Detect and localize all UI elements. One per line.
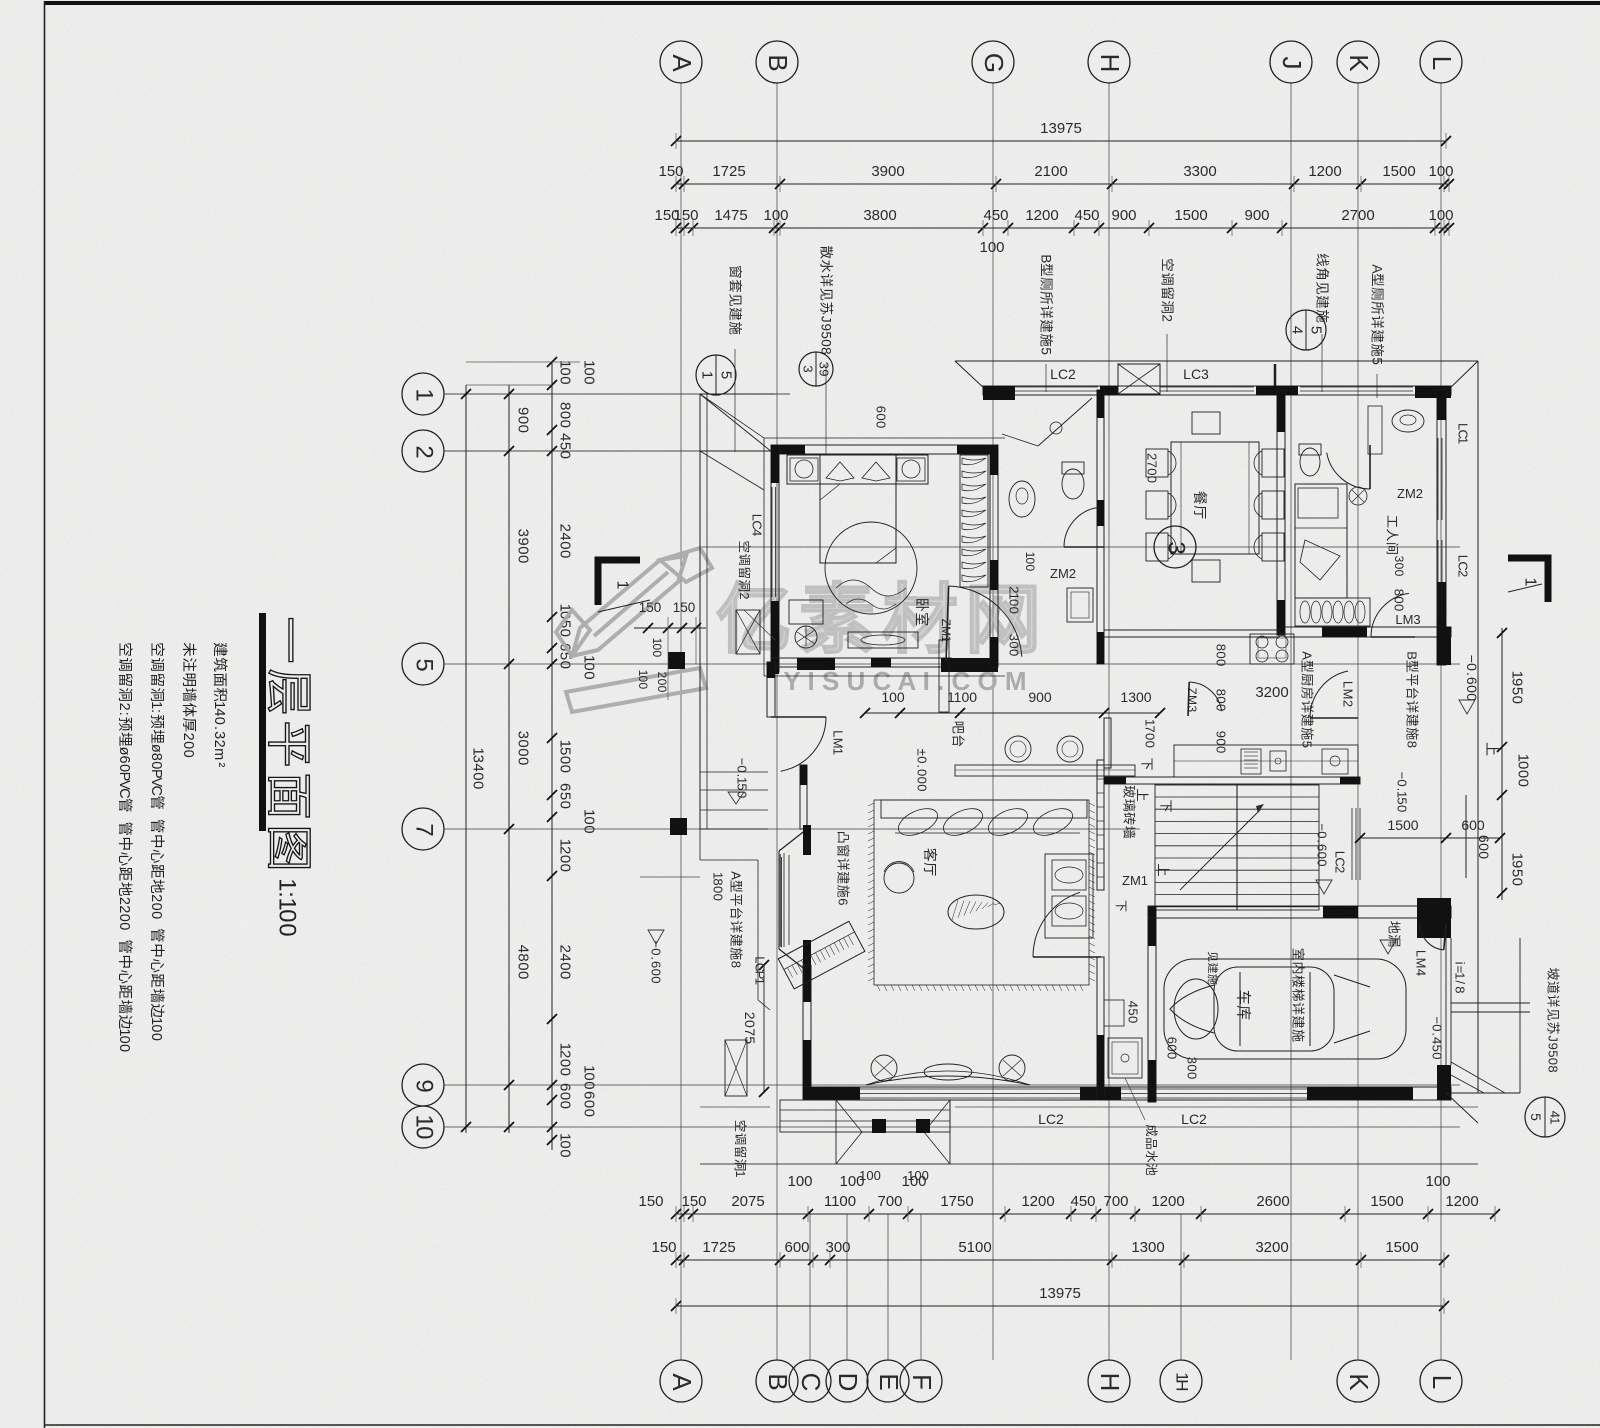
- svg-text:5: 5: [557, 442, 574, 450]
- svg-text:0: 0: [1007, 607, 1022, 614]
- detail circle 5/41 bottom right: [1525, 1097, 1565, 1137]
- title scale: [274, 878, 301, 936]
- svg-text:.: .: [649, 956, 664, 960]
- title underline bar: [259, 613, 266, 831]
- svg-text:0: 0: [515, 416, 532, 424]
- svg-text:窗: 窗: [836, 844, 851, 857]
- svg-text:0: 0: [1395, 805, 1410, 812]
- window LC3 top: [1160, 386, 1254, 388]
- dining chair top: [1192, 412, 1220, 434]
- detail circle 3/39: [799, 352, 833, 386]
- svg-text:详: 详: [819, 274, 834, 288]
- svg-text:室: 室: [1291, 948, 1306, 961]
- svg-text:0: 0: [1143, 733, 1158, 740]
- axis bubble 1H bottom: [1160, 1360, 1202, 1402]
- top dimension total 13975: [676, 140, 1446, 142]
- svg-text:道: 道: [1546, 981, 1561, 994]
- svg-text:明: 明: [180, 672, 196, 687]
- sofa long: [881, 800, 1087, 818]
- svg-text:详: 详: [1546, 994, 1561, 1007]
- svg-text:K: K: [1344, 54, 1374, 72]
- svg-text:建: 建: [1039, 319, 1054, 333]
- svg-text:4: 4: [1126, 1001, 1141, 1008]
- svg-text:0: 0: [557, 801, 574, 809]
- svg-text:0: 0: [711, 886, 726, 893]
- svg-text:0: 0: [1145, 476, 1160, 483]
- svg-text:套: 套: [728, 279, 743, 293]
- window LC2 top: [1015, 386, 1098, 388]
- axis bubble J top: [1270, 41, 1312, 83]
- svg-text:1200: 1200: [1445, 1193, 1478, 1210]
- svg-text:型: 型: [1039, 263, 1054, 277]
- svg-text:2: 2: [1160, 314, 1175, 322]
- svg-text:5: 5: [1509, 869, 1526, 877]
- svg-text:9: 9: [1546, 1043, 1561, 1050]
- svg-text:B: B: [1039, 254, 1054, 263]
- svg-text:图: 图: [263, 825, 316, 872]
- svg-text:下: 下: [1140, 757, 1155, 770]
- svg-text:墙: 墙: [1122, 826, 1137, 839]
- svg-text:M: M: [1341, 689, 1356, 700]
- svg-text:1200: 1200: [1025, 207, 1058, 224]
- axis bubble 1 left: [402, 373, 444, 415]
- svg-text:LC2: LC2: [1181, 1111, 1207, 1127]
- svg-text:8: 8: [557, 402, 574, 410]
- svg-text::: :: [116, 712, 132, 716]
- svg-text:0: 0: [711, 894, 726, 901]
- svg-text:150: 150: [681, 1193, 706, 1210]
- dining chairs left: [1146, 449, 1168, 477]
- svg-text:3900: 3900: [871, 163, 904, 180]
- svg-text:1: 1: [753, 978, 768, 985]
- svg-text:−: −: [1395, 772, 1410, 780]
- dining chairs right: [1262, 449, 1284, 477]
- svg-text:2: 2: [180, 733, 196, 741]
- garage right opening: [1445, 938, 1447, 1065]
- svg-text:.: .: [915, 764, 930, 768]
- svg-text:砖: 砖: [1122, 812, 1137, 825]
- svg-text:2: 2: [116, 703, 132, 711]
- terrace hip: [836, 1100, 950, 1164]
- svg-text:9: 9: [515, 537, 532, 545]
- svg-text:5: 5: [1546, 1050, 1561, 1057]
- svg-text:0: 0: [557, 451, 574, 459]
- svg-text:450: 450: [1074, 207, 1099, 224]
- svg-text:5: 5: [1039, 347, 1054, 355]
- svg-text:施: 施: [1206, 974, 1219, 985]
- svg-text:3: 3: [1007, 634, 1022, 641]
- axis bubble 5 left: [402, 643, 444, 685]
- svg-text:100: 100: [787, 1173, 812, 1190]
- svg-text:3: 3: [1185, 1057, 1200, 1064]
- svg-text:4: 4: [557, 433, 574, 441]
- svg-text:LC2: LC2: [1038, 1111, 1064, 1127]
- svg-text:建: 建: [1405, 714, 1420, 727]
- svg-text:0: 0: [915, 756, 930, 763]
- svg-text:L: L: [1427, 56, 1457, 70]
- 成品水池 label: [1144, 1124, 1158, 1176]
- svg-text:6: 6: [874, 406, 889, 413]
- bedroom walls: [771, 445, 998, 454]
- svg-text:0: 0: [470, 781, 487, 789]
- svg-text:−: −: [1430, 1016, 1445, 1024]
- svg-text:见: 见: [1206, 951, 1218, 962]
- stove: [1250, 634, 1294, 664]
- svg-text:4: 4: [1289, 326, 1306, 334]
- svg-text:8: 8: [1546, 1065, 1561, 1072]
- svg-text:0: 0: [581, 816, 598, 824]
- svg-text:0: 0: [211, 717, 227, 725]
- svg-text:建: 建: [1315, 295, 1330, 309]
- svg-text:5: 5: [1308, 326, 1325, 334]
- svg-text:见: 见: [1315, 281, 1330, 295]
- svg-text:8: 8: [1405, 741, 1420, 748]
- svg-text:预: 预: [148, 714, 165, 729]
- svg-text:0: 0: [557, 550, 574, 558]
- svg-text:施: 施: [836, 885, 851, 898]
- svg-text:上: 上: [1156, 863, 1171, 876]
- notes column 3: [148, 642, 165, 1041]
- svg-text:0: 0: [915, 784, 930, 791]
- svg-text:管: 管: [148, 928, 165, 943]
- svg-text:5: 5: [1509, 687, 1526, 695]
- eave line top: [955, 360, 1478, 362]
- ac slot label bottom left: [733, 1120, 747, 1178]
- svg-text:空: 空: [116, 642, 133, 657]
- top axis vertical grid lines: [680, 83, 682, 1360]
- svg-text:0: 0: [1214, 704, 1229, 711]
- bottom dimension row 1: [676, 1213, 1495, 1215]
- svg-text:台: 台: [1405, 687, 1420, 700]
- svg-text:L: L: [1414, 950, 1429, 957]
- svg-text:见: 见: [728, 293, 743, 307]
- bedroom tv cabinet: [848, 632, 918, 648]
- svg-text:B: B: [1405, 651, 1420, 660]
- bar counter: [939, 640, 949, 712]
- svg-text:施: 施: [1370, 343, 1385, 357]
- svg-text:0: 0: [581, 1081, 598, 1089]
- svg-text:施: 施: [1315, 309, 1330, 323]
- svg-text:未: 未: [180, 642, 197, 657]
- svg-text:0: 0: [1165, 1052, 1180, 1059]
- svg-text:LC3: LC3: [1183, 366, 1209, 382]
- svg-text:型: 型: [729, 880, 744, 893]
- svg-text:K: K: [1344, 1373, 1374, 1391]
- svg-text:100: 100: [907, 1168, 929, 1183]
- svg-text:0: 0: [180, 741, 196, 749]
- axis bubble K top: [1337, 41, 1379, 83]
- svg-text:施: 施: [729, 947, 744, 960]
- svg-text:中: 中: [148, 943, 165, 958]
- svg-text:详: 详: [729, 920, 744, 933]
- svg-text::: :: [148, 709, 164, 713]
- svg-text:心: 心: [116, 852, 133, 867]
- svg-text:地: 地: [116, 882, 133, 897]
- svg-text:见: 见: [819, 288, 834, 302]
- svg-text:中: 中: [116, 837, 133, 852]
- leader notes above plan: [728, 265, 744, 335]
- svg-text:2600: 2600: [1256, 1193, 1289, 1210]
- svg-text:0: 0: [1392, 570, 1406, 577]
- svg-text:7: 7: [411, 823, 438, 836]
- svg-text:600: 600: [784, 1239, 809, 1256]
- svg-text:.: .: [211, 726, 227, 730]
- svg-text:8: 8: [148, 753, 164, 761]
- piano: [778, 921, 865, 989]
- svg-text:筑: 筑: [211, 657, 228, 672]
- svg-text:1300: 1300: [1120, 689, 1151, 705]
- svg-text:0: 0: [116, 922, 132, 930]
- axis bubble E bottom: [867, 1360, 909, 1402]
- svg-text:0: 0: [581, 825, 598, 833]
- svg-text:管: 管: [116, 798, 133, 813]
- svg-text:7: 7: [742, 1028, 758, 1036]
- stair landing level: [1315, 823, 1330, 866]
- svg-text:苏: 苏: [1546, 1021, 1561, 1034]
- border frame bottom line: [45, 1424, 1600, 1426]
- svg-text:0: 0: [1392, 596, 1407, 603]
- svg-text:i: i: [1453, 962, 1468, 965]
- svg-text:2: 2: [557, 524, 574, 532]
- svg-text:3: 3: [1392, 556, 1406, 563]
- loveseat right: [1045, 854, 1093, 938]
- bay window label: [836, 831, 851, 906]
- svg-text:8: 8: [1453, 986, 1468, 993]
- svg-text:厨: 厨: [1300, 673, 1315, 686]
- svg-text:0: 0: [557, 541, 574, 549]
- svg-text:苏: 苏: [819, 302, 834, 316]
- svg-text:.: .: [1430, 1032, 1445, 1036]
- svg-text:心: 心: [116, 969, 133, 984]
- svg-text:0: 0: [557, 1149, 574, 1157]
- svg-text:700: 700: [1103, 1193, 1128, 1210]
- svg-text:地: 地: [148, 879, 165, 894]
- svg-text:建: 建: [836, 871, 851, 884]
- porch inner edge line: [706, 394, 708, 829]
- bedroom stool + plant: [789, 600, 823, 624]
- svg-text:J: J: [819, 316, 834, 323]
- entry steps: [700, 828, 768, 830]
- svg-text:1200: 1200: [1021, 1193, 1054, 1210]
- top dimension row 2: [676, 183, 1449, 185]
- small window box left bottom: [725, 1040, 747, 1096]
- svg-text:150: 150: [673, 207, 698, 224]
- svg-text:100: 100: [979, 239, 1004, 256]
- svg-text:管: 管: [116, 939, 133, 954]
- svg-text:空: 空: [1160, 258, 1175, 272]
- svg-text:留: 留: [1160, 286, 1175, 300]
- svg-text:1: 1: [1548, 1117, 1563, 1124]
- svg-text:5: 5: [718, 371, 735, 379]
- driveway: [1451, 1002, 1530, 1004]
- svg-text:0: 0: [1126, 1016, 1141, 1023]
- axis bubble H bottom: [1088, 1360, 1130, 1402]
- svg-text:0: 0: [557, 420, 574, 428]
- svg-text:留: 留: [148, 672, 165, 687]
- svg-text:吧: 吧: [951, 721, 966, 734]
- svg-text:0: 0: [819, 339, 834, 347]
- right outer wall: [1437, 390, 1446, 665]
- svg-text:6: 6: [581, 1091, 598, 1099]
- svg-text:A: A: [667, 1373, 697, 1391]
- axis bubble 7 left: [402, 808, 444, 850]
- svg-text:2: 2: [742, 1012, 758, 1020]
- svg-text:调: 调: [116, 657, 133, 672]
- svg-text:预: 预: [116, 717, 133, 732]
- svg-text:2: 2: [411, 445, 438, 458]
- svg-text:0: 0: [1023, 558, 1037, 565]
- svg-text:2: 2: [1145, 453, 1160, 460]
- svg-text:1: 1: [1456, 437, 1471, 444]
- svg-text:0: 0: [735, 765, 750, 772]
- svg-text:散: 散: [819, 245, 834, 259]
- svg-text:卧: 卧: [914, 598, 930, 612]
- svg-text:施: 施: [1300, 727, 1315, 740]
- svg-text:0: 0: [515, 425, 532, 433]
- door ZM2 servant: [1327, 453, 1370, 489]
- svg-text:0: 0: [650, 644, 664, 651]
- bottom windows LC2: [860, 1088, 1080, 1090]
- svg-text:0: 0: [649, 976, 664, 983]
- svg-text:距: 距: [148, 864, 164, 879]
- svg-text:ZM2: ZM2: [1050, 566, 1076, 581]
- svg-text:中: 中: [148, 834, 165, 849]
- svg-text:0: 0: [1509, 696, 1526, 704]
- garage labels: [1387, 921, 1402, 948]
- svg-text:0: 0: [557, 765, 574, 773]
- svg-text:中: 中: [116, 954, 133, 969]
- svg-text:9: 9: [515, 407, 532, 415]
- svg-text:施: 施: [1291, 1029, 1306, 1042]
- svg-text:客: 客: [922, 848, 938, 862]
- svg-text:0: 0: [655, 679, 669, 686]
- svg-text:墙: 墙: [116, 1000, 133, 1015]
- svg-text:100: 100: [1428, 207, 1453, 224]
- svg-text:1: 1: [411, 388, 438, 401]
- svg-text:距: 距: [116, 867, 132, 882]
- svg-text:0: 0: [581, 367, 598, 375]
- round rug with flowers: [825, 522, 917, 614]
- svg-text:0: 0: [581, 1109, 598, 1117]
- border frame left line: [44, 1, 46, 1428]
- svg-text:0: 0: [515, 757, 532, 765]
- kitchen labels: [1185, 688, 1199, 713]
- svg-text:0: 0: [1392, 563, 1406, 570]
- svg-text:0: 0: [515, 546, 532, 554]
- svg-text:5: 5: [1528, 1113, 1544, 1121]
- svg-text:0: 0: [557, 367, 574, 375]
- svg-text:餐: 餐: [1192, 491, 1208, 505]
- svg-text:5: 5: [735, 783, 750, 790]
- svg-text:坡: 坡: [1546, 967, 1561, 980]
- svg-text:平: 平: [729, 893, 744, 906]
- kitchen top boundary / servant-kitchen: [1104, 630, 1279, 637]
- svg-text:上: 上: [1484, 742, 1500, 756]
- svg-text:0: 0: [915, 769, 930, 776]
- svg-text:0: 0: [581, 1072, 598, 1080]
- svg-text:台: 台: [951, 734, 966, 747]
- svg-text:5: 5: [1300, 741, 1315, 748]
- svg-text:4: 4: [1430, 1037, 1445, 1044]
- svg-text:H: H: [1095, 1373, 1125, 1392]
- stairs: [1155, 785, 1319, 910]
- svg-text:3: 3: [1185, 705, 1199, 712]
- svg-text:0: 0: [649, 969, 664, 976]
- svg-text:距: 距: [116, 985, 132, 1000]
- axis bubble L top: [1420, 41, 1462, 83]
- svg-text:0: 0: [470, 772, 487, 780]
- svg-text:F: F: [907, 1374, 937, 1390]
- svg-text:面: 面: [263, 773, 316, 820]
- svg-text:埋: 埋: [116, 732, 133, 747]
- svg-text:0: 0: [1165, 1044, 1180, 1051]
- svg-text:施: 施: [728, 321, 743, 335]
- garage walls: [1148, 906, 1156, 1102]
- svg-text:1725: 1725: [702, 1239, 735, 1256]
- svg-text:3: 3: [817, 362, 832, 369]
- svg-text:300: 300: [825, 1239, 850, 1256]
- svg-text:0: 0: [1145, 468, 1160, 475]
- svg-text:100: 100: [859, 1168, 881, 1183]
- svg-text:0: 0: [1143, 741, 1158, 748]
- svg-text:厅: 厅: [922, 862, 938, 876]
- svg-text:900: 900: [1111, 207, 1136, 224]
- svg-text:0: 0: [581, 1100, 598, 1108]
- svg-text:100: 100: [763, 207, 788, 224]
- svg-text:4: 4: [470, 763, 487, 771]
- svg-text:墙: 墙: [148, 988, 165, 1003]
- svg-text:H: H: [1173, 1379, 1192, 1391]
- bath door: [1064, 507, 1098, 547]
- svg-text:0: 0: [1430, 1052, 1445, 1059]
- svg-text:ZM1: ZM1: [1122, 873, 1148, 888]
- svg-text:1: 1: [831, 748, 846, 755]
- svg-text:0: 0: [557, 1101, 574, 1109]
- svg-text:J: J: [1277, 57, 1307, 70]
- entry wall left: [767, 662, 775, 717]
- svg-text:0: 0: [1185, 1072, 1200, 1079]
- svg-text:面: 面: [211, 672, 227, 687]
- notes column 4: [116, 642, 133, 1052]
- bottom dimension row 2: [676, 1259, 1444, 1261]
- svg-text:3: 3: [470, 755, 487, 763]
- canopy diagonals: [700, 394, 764, 438]
- svg-text:型: 型: [1370, 273, 1385, 287]
- svg-text:平: 平: [263, 721, 316, 768]
- svg-text:150: 150: [638, 1193, 663, 1210]
- dim 2075 vertical: [763, 965, 765, 1092]
- living bottom wall: [803, 1087, 1451, 1100]
- svg-text:窗: 窗: [728, 265, 744, 279]
- svg-text:7: 7: [1145, 461, 1160, 468]
- left dim chain spans: [508, 385, 510, 1133]
- bathroom fixtures (G-H): [1038, 398, 1092, 446]
- svg-text:1500: 1500: [1385, 1239, 1418, 1256]
- servant labels: [1385, 515, 1400, 555]
- svg-text:4: 4: [211, 708, 227, 716]
- svg-text:0: 0: [649, 948, 664, 955]
- svg-text:埋: 埋: [148, 729, 165, 744]
- svg-text:厅: 厅: [1192, 505, 1208, 519]
- door ZM1 bedroom: [949, 586, 1022, 657]
- svg-text:层: 层: [263, 669, 316, 716]
- svg-text:1: 1: [1453, 972, 1468, 979]
- svg-text:详: 详: [836, 858, 851, 871]
- svg-text:型: 型: [1300, 660, 1315, 673]
- svg-text:下: 下: [1114, 900, 1128, 912]
- svg-text:建: 建: [728, 307, 743, 321]
- svg-text:6: 6: [1315, 844, 1330, 851]
